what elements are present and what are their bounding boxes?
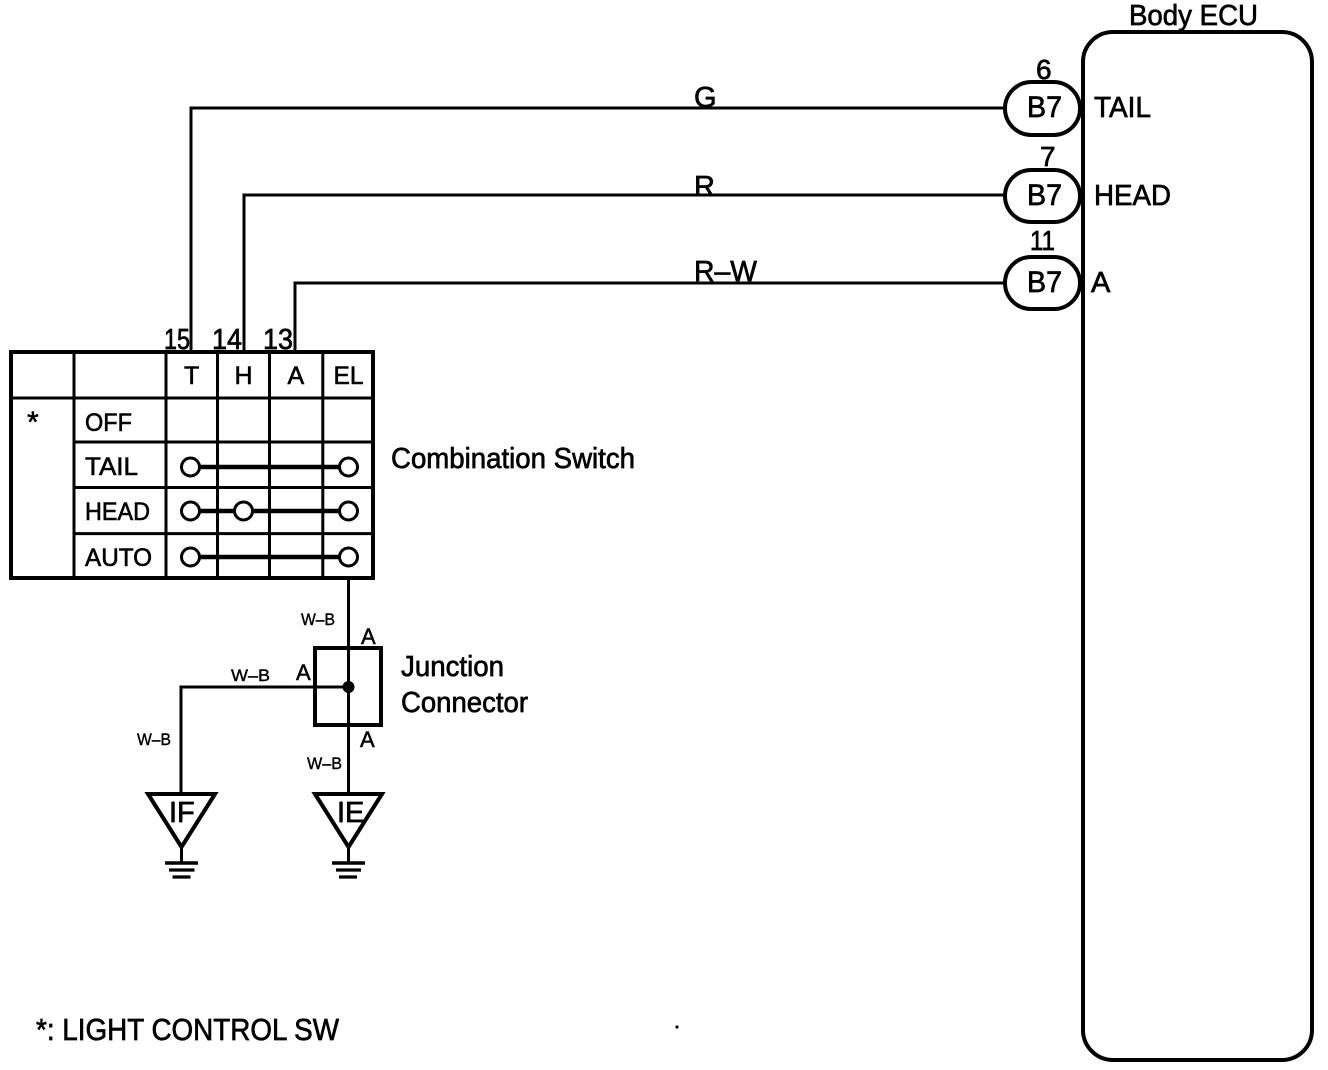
- svg-text:H: H: [235, 362, 253, 390]
- connector B7 (A): [1005, 257, 1080, 309]
- TAIL row contact T-EL: [182, 458, 358, 476]
- AUTO row contact T-EL: [182, 548, 358, 566]
- svg-text:R–W: R–W: [694, 256, 758, 288]
- wire R (pin 14 to connector B7 pin 7): [244, 195, 1006, 351]
- connector B7 (HEAD): [1005, 170, 1080, 222]
- svg-text:A: A: [288, 362, 305, 390]
- svg-text:TAIL: TAIL: [1094, 92, 1151, 124]
- wire R-W (pin 13 to connector B7 pin 11): [295, 283, 1006, 351]
- svg-text:EL: EL: [334, 362, 364, 390]
- svg-text:W–B: W–B: [307, 754, 342, 773]
- combination switch SW1 table frame: [11, 352, 373, 578]
- wire G (pin 15 to connector B7 pin 6): [191, 108, 1006, 351]
- svg-text:*: LIGHT CONTROL SW: *: LIGHT CONTROL SW: [36, 1012, 340, 1047]
- svg-text:Combination Switch: Combination Switch: [391, 443, 635, 475]
- label W-B top: [301, 610, 335, 629]
- svg-text:W–B: W–B: [231, 666, 270, 685]
- pin number 15: [164, 324, 190, 356]
- row label OFF: [85, 409, 132, 437]
- svg-text:OFF: OFF: [85, 409, 132, 437]
- wire W-B from switch EL to ground IE through junction: [347, 578, 350, 794]
- svg-text:R: R: [694, 171, 715, 203]
- ground IE triangle: [315, 794, 382, 847]
- row label HEAD: [85, 498, 150, 526]
- row label TAIL: [85, 453, 138, 481]
- label W-B left branch: [137, 730, 171, 749]
- pin number 7: [1040, 141, 1056, 172]
- pin number 14: [212, 324, 242, 356]
- asterisk note mark: [27, 406, 39, 439]
- footnote LIGHT CONTROL SW: [36, 1012, 340, 1047]
- svg-text:B7: B7: [1027, 266, 1062, 299]
- wire W-B branch to ground IF: [181, 687, 349, 794]
- pin name TAIL: [1094, 92, 1151, 124]
- table header H: [235, 362, 253, 390]
- pin number 13: [263, 324, 293, 356]
- label Combination Switch: [391, 443, 635, 475]
- ground IE symbol: [332, 847, 365, 877]
- label W-B left horizontal: [231, 666, 270, 685]
- ground IF triangle: [148, 794, 215, 847]
- svg-text:*: *: [27, 406, 39, 439]
- label Junction Connector: [401, 651, 528, 719]
- svg-text:HEAD: HEAD: [85, 498, 150, 526]
- label A above junction: [361, 624, 376, 649]
- svg-text:A: A: [361, 624, 376, 649]
- svg-text:W–B: W–B: [301, 610, 335, 629]
- svg-text:W–B: W–B: [137, 730, 171, 749]
- svg-text:7: 7: [1040, 141, 1056, 172]
- svg-text:HEAD: HEAD: [1094, 180, 1171, 212]
- pin name HEAD: [1094, 180, 1171, 212]
- label Body ECU: [1129, 0, 1258, 32]
- label R: [694, 171, 715, 203]
- pin number 11: [1030, 225, 1055, 256]
- svg-text:TAIL: TAIL: [85, 453, 138, 481]
- svg-text:Junction: Junction: [401, 651, 504, 683]
- svg-text:A: A: [296, 660, 311, 685]
- svg-text:IE: IE: [337, 797, 364, 829]
- junction node dot: [343, 681, 355, 693]
- pin number 6: [1036, 54, 1052, 85]
- svg-text:IF: IF: [169, 797, 195, 829]
- svg-text:B7: B7: [1027, 91, 1062, 124]
- label A left of junction: [296, 660, 311, 685]
- pin name A: [1091, 267, 1111, 299]
- svg-text:B7: B7: [1027, 179, 1062, 212]
- svg-text:Body ECU: Body ECU: [1129, 0, 1258, 32]
- connector B7 (TAIL): [1005, 82, 1080, 135]
- label G: [694, 82, 717, 114]
- table header A: [288, 362, 305, 390]
- svg-text:A: A: [1091, 267, 1111, 299]
- svg-text:AUTO: AUTO: [85, 544, 152, 572]
- table header T: [184, 362, 199, 390]
- table header EL: [334, 362, 364, 390]
- row label AUTO: [85, 544, 152, 572]
- svg-text:G: G: [694, 82, 717, 114]
- label A below junction: [360, 727, 375, 752]
- ground IF symbol: [165, 847, 198, 877]
- junction connector box J1: [315, 648, 381, 725]
- Body ECU box U1: [1083, 32, 1312, 1060]
- label W-B bottom: [307, 754, 342, 773]
- svg-text:11: 11: [1030, 225, 1055, 256]
- label R-W: [694, 256, 758, 288]
- HEAD row contact T-H-EL: [182, 502, 358, 520]
- svg-text:Connector: Connector: [401, 687, 528, 719]
- svg-text:T: T: [184, 362, 199, 390]
- svg-text:A: A: [360, 727, 375, 752]
